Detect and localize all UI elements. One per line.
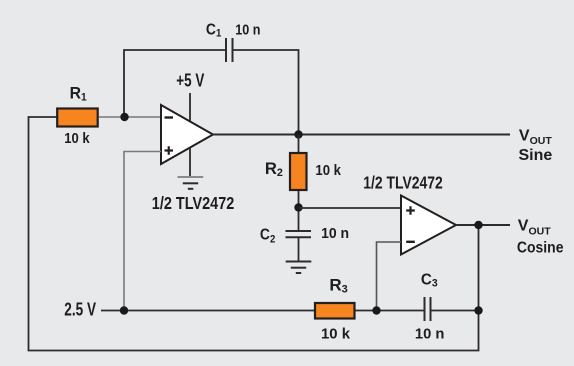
svg-text:2.5 V: 2.5 V bbox=[64, 299, 96, 319]
wire op-amp U2 inverting input bbox=[377, 242, 402, 311]
op-amp U2 bbox=[401, 196, 456, 255]
wire R2 bottom stub bbox=[298, 191, 300, 231]
svg-text:10 n: 10 n bbox=[235, 22, 260, 39]
node 2.5V / noninverting tap bbox=[120, 306, 128, 314]
svg-text:+5 V: +5 V bbox=[176, 71, 204, 91]
wire R1 left to outer loop bbox=[29, 117, 479, 351]
wire cosine output bbox=[456, 224, 510, 226]
wire R1 right to op-amp inverting input bbox=[99, 116, 162, 118]
wire op-amp U1 noninverting input bbox=[124, 152, 161, 311]
svg-text:10 k: 10 k bbox=[315, 162, 341, 179]
wire sine output line bbox=[213, 134, 510, 136]
wire C1 top left segment bbox=[124, 50, 226, 117]
ground C2 bbox=[286, 262, 312, 274]
svg-text:1/2 TLV2472: 1/2 TLV2472 bbox=[152, 193, 235, 213]
wire +5V supply stub bbox=[189, 93, 191, 122]
resistor R3 bbox=[315, 303, 355, 319]
capacitor C3 bbox=[425, 297, 431, 321]
svg-text:10 n: 10 n bbox=[321, 225, 349, 242]
ground op-amp U1 bbox=[178, 177, 204, 189]
wire op-amp U2 noninverting input bbox=[299, 207, 402, 209]
svg-text:10 k: 10 k bbox=[321, 326, 351, 343]
node cosine output junction bbox=[474, 221, 482, 229]
wire R3 right to C3 bbox=[356, 310, 425, 312]
node C3 / feedback junction bbox=[474, 306, 482, 314]
svg-text:10 n: 10 n bbox=[415, 326, 445, 343]
wire R2 top stub bbox=[298, 135, 300, 153]
resistor R1 bbox=[57, 109, 97, 127]
wire 2.5V line bbox=[101, 310, 314, 312]
wire C2 ground stub bbox=[298, 237, 300, 261]
capacitor C2 bbox=[286, 231, 312, 237]
wire C3 right stub bbox=[431, 310, 479, 312]
capacitor C1 bbox=[226, 38, 233, 62]
svg-text:Cosine: Cosine bbox=[517, 239, 564, 256]
node R2/C2 junction bbox=[294, 203, 302, 211]
resistor R2 bbox=[290, 153, 307, 190]
op-amp U1 bbox=[161, 105, 213, 164]
wire op-amp U1 ground stub bbox=[189, 148, 191, 177]
node R1/C1 junction bbox=[120, 113, 128, 121]
node sine output / R2 tap bbox=[294, 130, 302, 138]
wire C1 top right segment bbox=[233, 50, 299, 135]
svg-text:Sine: Sine bbox=[519, 147, 553, 164]
svg-text:1/2 TLV2472: 1/2 TLV2472 bbox=[363, 173, 443, 193]
svg-text:10 k: 10 k bbox=[64, 130, 90, 147]
node R3/C3 junction bbox=[372, 306, 380, 314]
